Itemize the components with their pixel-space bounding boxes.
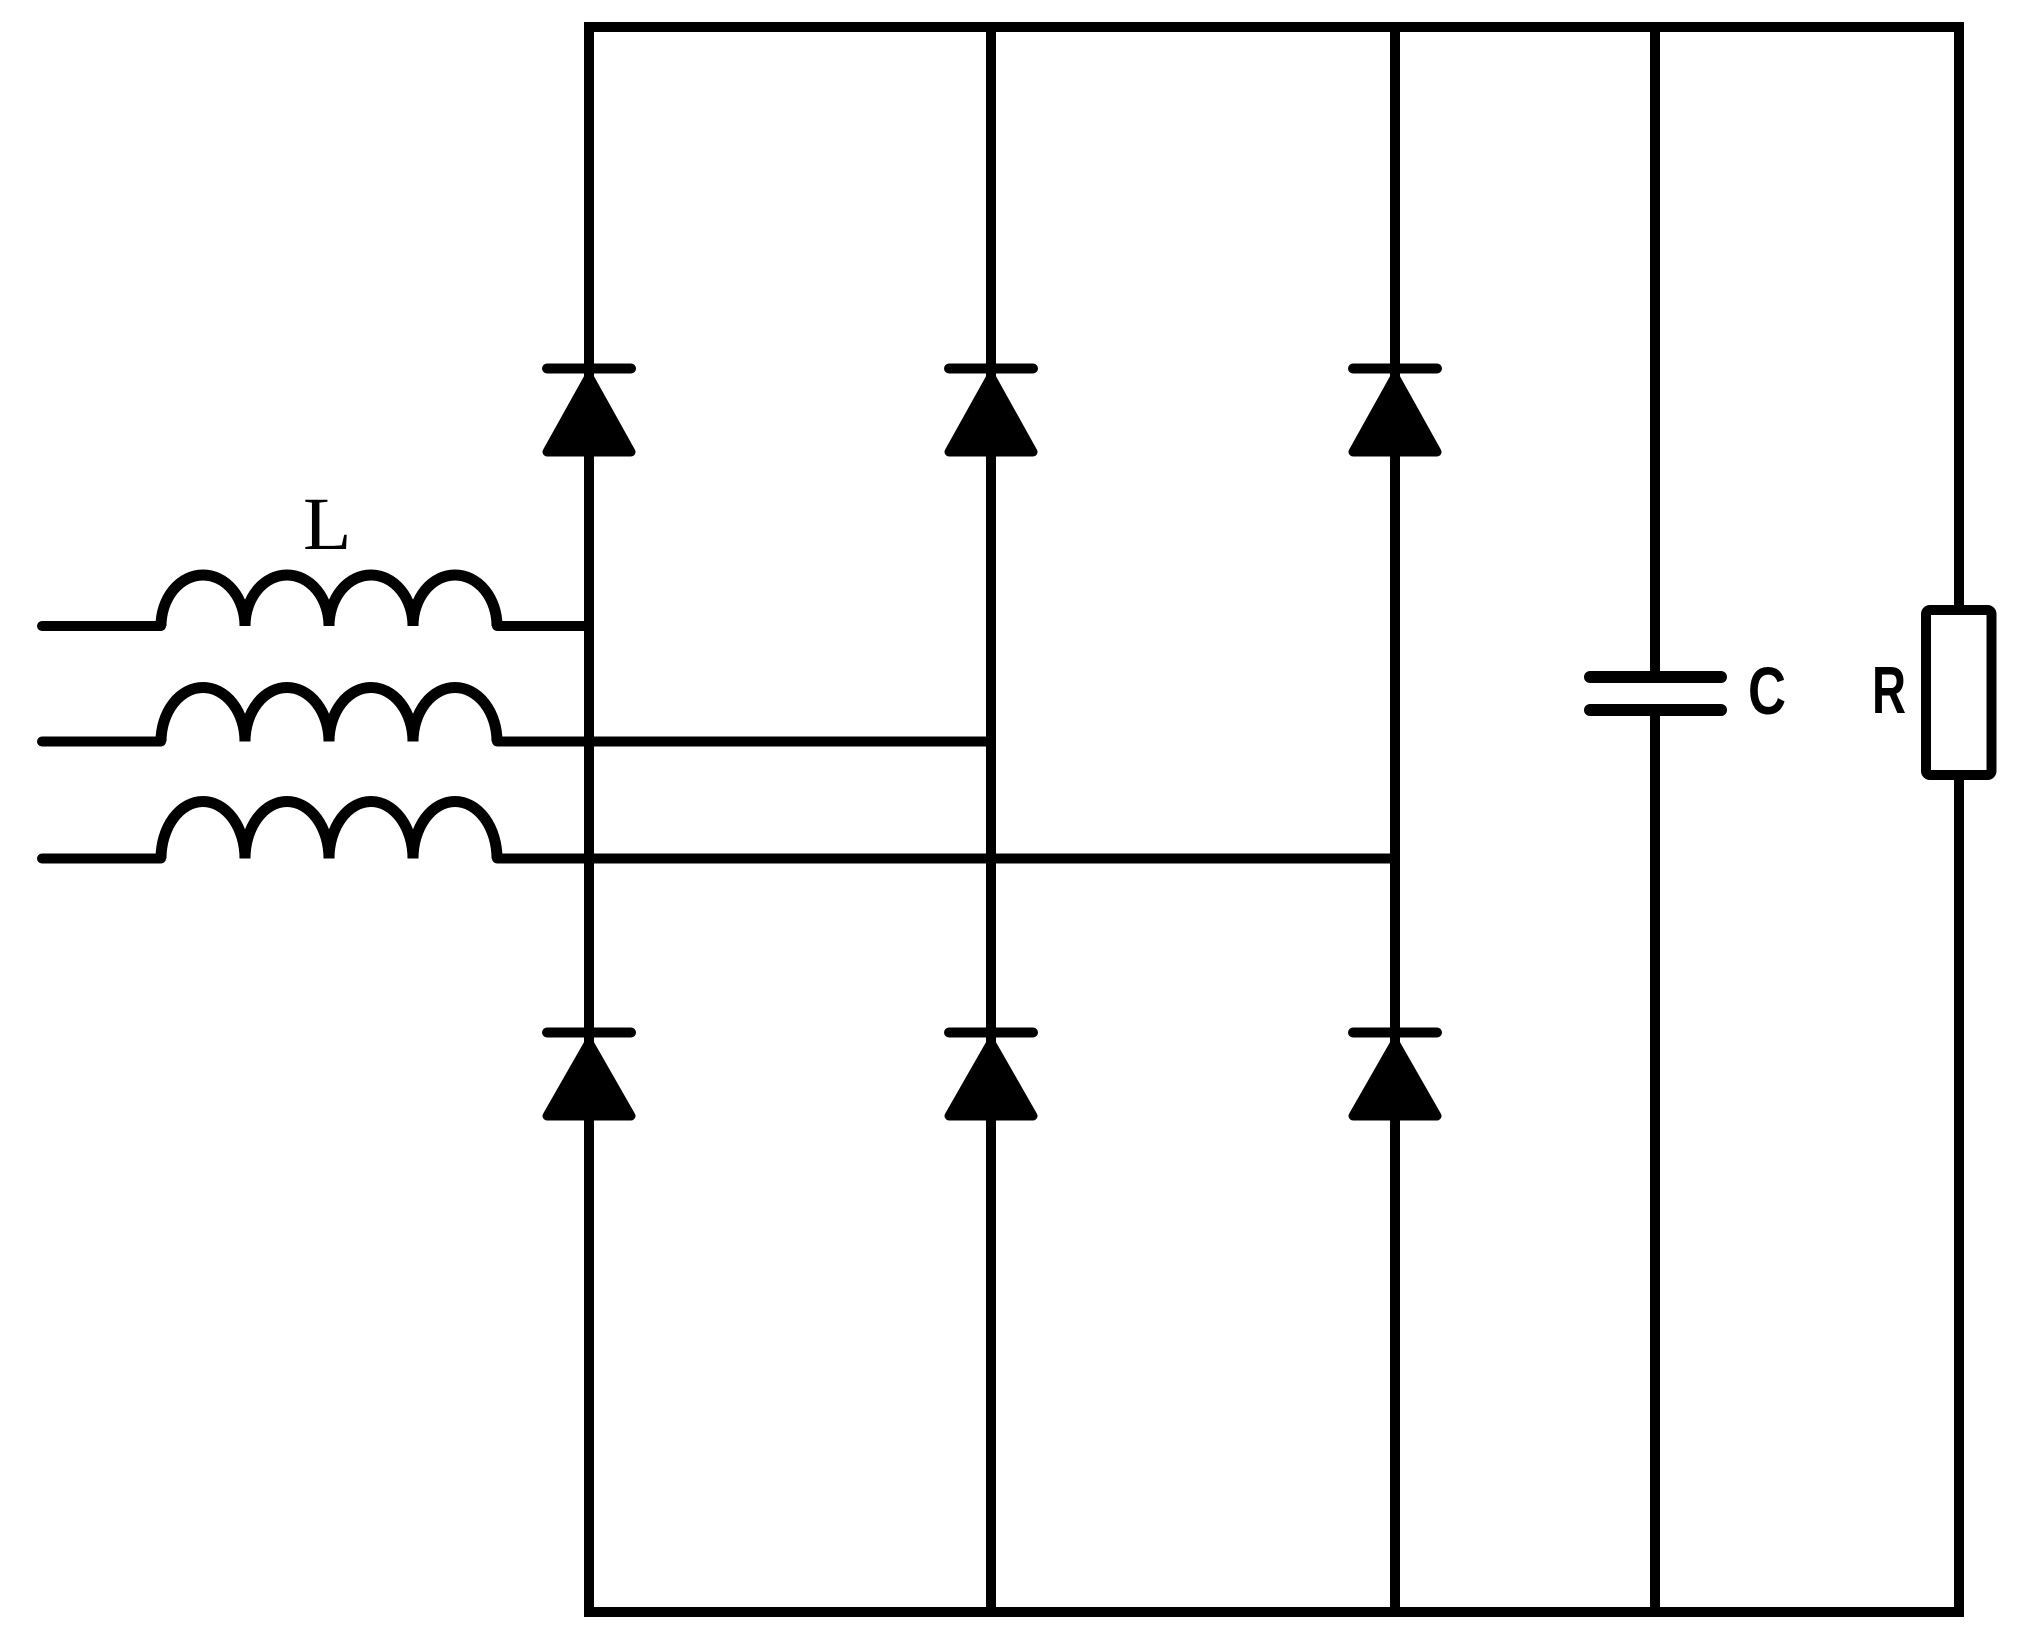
svg-text:R: R — [1872, 653, 1906, 728]
svg-text:C: C — [1748, 654, 1786, 729]
svg-text:L: L — [303, 483, 352, 566]
